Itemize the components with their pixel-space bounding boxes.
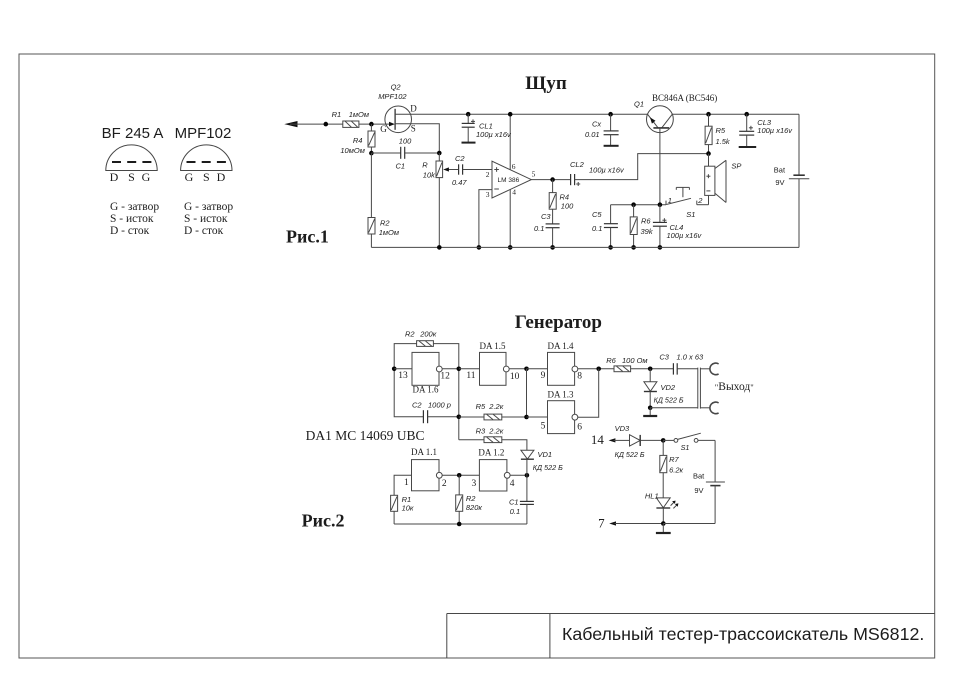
capacitor C1 100 xyxy=(371,136,439,170)
svg-text:КД 522 Б: КД 522 Б xyxy=(654,395,684,404)
svg-text:VD2: VD2 xyxy=(661,383,676,392)
svg-text:C2: C2 xyxy=(412,400,422,409)
svg-text:100: 100 xyxy=(561,202,574,211)
svg-text:DA 1.2: DA 1.2 xyxy=(478,447,504,457)
svg-text:G: G xyxy=(380,124,387,134)
svg-text:Щуп: Щуп xyxy=(525,73,567,94)
junction DA1.3 input node xyxy=(524,415,529,420)
inverter DA 1.6 xyxy=(398,352,450,394)
svg-text:6: 6 xyxy=(577,423,582,433)
svg-text:1000 р: 1000 р xyxy=(428,400,451,409)
wire pin4 to ground rail xyxy=(509,189,511,247)
wire output DA1.6 xyxy=(442,368,459,370)
svg-text:8: 8 xyxy=(577,372,582,382)
capacitor C1 0.1 xyxy=(509,475,534,524)
svg-text:D: D xyxy=(410,103,417,113)
svg-text:G: G xyxy=(185,170,194,184)
junction Q1 base node xyxy=(658,202,663,207)
resistor R5 1.5k xyxy=(705,112,731,154)
svg-text:0.1: 0.1 xyxy=(534,224,544,233)
svg-text:12: 12 xyxy=(440,372,450,382)
junction VD2 node xyxy=(648,367,653,372)
svg-text:14: 14 xyxy=(591,432,605,447)
svg-text:0.47: 0.47 xyxy=(452,178,467,187)
svg-text:10k: 10k xyxy=(423,170,436,179)
svg-text:Q2: Q2 xyxy=(391,83,402,92)
capacitor CL3 100µ x16v xyxy=(739,112,794,147)
wire CL2 to R5 node xyxy=(575,154,709,180)
wire R2 feedback right xyxy=(433,344,458,440)
resistor R1 10к xyxy=(391,495,414,524)
svg-text:S: S xyxy=(128,170,135,184)
wire Q2 source to R pot xyxy=(395,124,439,153)
junction VD2 bottom node xyxy=(648,406,653,411)
svg-text:Генератор: Генератор xyxy=(515,312,602,333)
wire to DA1.4 input xyxy=(527,368,548,370)
svg-text:39k: 39k xyxy=(641,227,654,236)
svg-text:D: D xyxy=(217,170,226,184)
svg-text:2.2к: 2.2к xyxy=(488,426,503,435)
svg-text:100µ x16v: 100µ x16v xyxy=(757,126,793,135)
resistor R2 200к xyxy=(405,330,437,347)
junction gate node xyxy=(369,122,374,127)
svg-text:S1: S1 xyxy=(686,210,695,219)
svg-text:4: 4 xyxy=(510,479,515,489)
inverter DA 1.1 xyxy=(404,447,447,491)
wire R1 to Q2 gate xyxy=(359,123,385,125)
junction output node xyxy=(550,177,555,182)
junction pin3 rail xyxy=(477,245,482,250)
svg-text:Q1: Q1 xyxy=(634,99,644,108)
capacitor Cx 0.01 xyxy=(585,112,619,146)
svg-text:S - исток: S - исток xyxy=(184,213,228,225)
wire top supply rail xyxy=(395,113,799,115)
ground below HL1 xyxy=(656,524,671,534)
legend MPF102 pin names xyxy=(184,201,233,237)
svg-text:CL2: CL2 xyxy=(570,160,585,169)
junction C3 rail xyxy=(550,245,555,250)
legend BF245A pin names xyxy=(110,201,159,237)
inverter DA 1.4 xyxy=(541,341,583,385)
svg-text:C5: C5 xyxy=(592,210,602,219)
svg-text:5: 5 xyxy=(541,421,546,431)
junction R6 top xyxy=(631,202,636,207)
arrow to pin 14 xyxy=(609,438,630,442)
capacitor C2 1000р xyxy=(412,400,459,423)
svg-text:3: 3 xyxy=(472,479,477,489)
svg-text:DA 1.4: DA 1.4 xyxy=(548,341,575,351)
svg-text:1мОм: 1мОм xyxy=(349,110,369,119)
svg-text:R6: R6 xyxy=(641,216,651,225)
svg-text:2: 2 xyxy=(697,196,703,205)
junction R6 rail xyxy=(631,245,636,250)
svg-text:100 Ом: 100 Ом xyxy=(622,356,648,365)
wire DA1.2 output xyxy=(510,474,527,476)
svg-text:R: R xyxy=(422,160,428,169)
resistor R4 100 xyxy=(549,180,574,224)
resistor R1 1мОм xyxy=(332,110,369,127)
svg-text:LM 386: LM 386 xyxy=(498,177,520,184)
wire pin3 to ground rail xyxy=(479,190,492,248)
svg-text:C1: C1 xyxy=(509,497,519,506)
svg-text:"Выход": "Выход" xyxy=(715,381,754,393)
wire pin12 to DA1.5 xyxy=(459,368,480,370)
svg-text:VD1: VD1 xyxy=(538,450,553,459)
svg-text:1мОм: 1мОм xyxy=(379,228,399,237)
svg-text:R5: R5 xyxy=(476,402,486,411)
junction VD3/R7/S1 node xyxy=(661,438,666,443)
resistor R6 39k xyxy=(630,205,654,248)
junction C1/pot node xyxy=(437,151,442,156)
wire to DA1.3 input xyxy=(527,416,548,418)
transistor MPF102 package outline xyxy=(181,145,232,171)
svg-text:R1: R1 xyxy=(332,110,342,119)
svg-text:R7: R7 xyxy=(669,455,679,464)
wire pin5 output xyxy=(531,179,570,181)
junction R4/C1/R2 node xyxy=(369,151,374,156)
inverter DA 1.2 xyxy=(472,447,515,491)
svg-text:820к: 820к xyxy=(466,503,483,512)
junction R5/CL2/SP node xyxy=(706,151,711,156)
svg-text:DA1 MC 14069 UBC: DA1 MC 14069 UBC xyxy=(306,428,425,443)
LED HL1 xyxy=(645,492,679,524)
svg-text:R2: R2 xyxy=(380,219,390,228)
svg-text:D - сток: D - сток xyxy=(184,225,224,237)
svg-text:R6: R6 xyxy=(606,356,616,365)
junction pin6 rail xyxy=(508,112,513,117)
svg-text:SP: SP xyxy=(731,162,741,171)
capacitor C2 0.47 xyxy=(452,154,492,187)
svg-text:D: D xyxy=(110,170,119,184)
svg-text:10к: 10к xyxy=(402,503,414,512)
wire ground rail xyxy=(371,246,799,248)
junction pot rail xyxy=(437,245,442,250)
junction C5 rail xyxy=(608,245,613,250)
svg-text:R2: R2 xyxy=(405,330,415,339)
switch S1 xyxy=(666,187,703,219)
svg-text:9V: 9V xyxy=(775,178,784,187)
svg-text:S1: S1 xyxy=(681,443,690,452)
svg-text:1.5k: 1.5k xyxy=(716,137,731,146)
capacitor C3 0.1 xyxy=(534,212,560,247)
svg-text:100µ x16v: 100µ x16v xyxy=(667,231,703,240)
svg-text:3: 3 xyxy=(486,190,490,199)
resistor R2 820к xyxy=(456,475,483,524)
svg-text:100µ x16v: 100µ x16v xyxy=(476,130,512,139)
capacitor CL2 100µ x16v xyxy=(570,160,625,186)
svg-text:0.1: 0.1 xyxy=(510,507,520,516)
junction pin13 node xyxy=(392,367,397,372)
svg-text:2: 2 xyxy=(442,479,447,489)
svg-text:1.0 x 63: 1.0 x 63 xyxy=(677,353,705,362)
svg-text:VD3: VD3 xyxy=(615,424,630,433)
wire DA1.1 output xyxy=(442,474,479,476)
resistor R7 6.2к xyxy=(660,440,684,497)
svg-text:R5: R5 xyxy=(716,126,726,135)
probe tip arrow xyxy=(284,121,343,127)
svg-text:DA 1.3: DA 1.3 xyxy=(548,389,575,399)
svg-text:1: 1 xyxy=(668,196,672,205)
svg-text:9: 9 xyxy=(541,371,546,381)
junction DA1.5 output node xyxy=(524,367,529,372)
transistor BF 245 A package outline xyxy=(106,145,157,171)
svg-text:G - затвор: G - затвор xyxy=(110,201,159,213)
battery Bat 9V xyxy=(774,114,810,247)
svg-text:0.01: 0.01 xyxy=(585,130,600,139)
switch S1 xyxy=(663,433,715,452)
ground below VD2 xyxy=(643,408,657,416)
connector Выход xyxy=(698,363,754,414)
wire Q1 base down xyxy=(659,128,661,205)
resistor R4 10мОм xyxy=(340,124,375,155)
svg-text:200к: 200к xyxy=(419,330,437,339)
wire fig2 ground rail xyxy=(394,523,527,525)
svg-text:4: 4 xyxy=(512,187,516,196)
potentiometer R 10k xyxy=(422,153,458,247)
junction R2 top node xyxy=(457,473,462,478)
svg-text:DA 1.1: DA 1.1 xyxy=(411,447,437,457)
svg-text:R3: R3 xyxy=(476,426,486,435)
resistor R3 2.2к xyxy=(459,426,527,450)
svg-text:10мОм: 10мОм xyxy=(340,146,364,155)
diode VD3 КД522Б xyxy=(615,424,664,459)
svg-text:7: 7 xyxy=(598,515,605,530)
svg-text:S: S xyxy=(203,170,210,184)
junction pin4 rail xyxy=(508,245,513,250)
capacitor CL1 100µ x16v xyxy=(462,112,513,143)
wire input DA1.6 xyxy=(394,368,412,370)
wire output lower to connector xyxy=(650,407,698,409)
svg-text:R4: R4 xyxy=(353,136,363,145)
junction R2 bottom rail xyxy=(457,522,462,527)
svg-text:G: G xyxy=(142,170,151,184)
junction pin8 node xyxy=(596,367,601,372)
transistor Q1 BC846A xyxy=(634,93,717,133)
svg-text:6.2к: 6.2к xyxy=(669,465,683,474)
svg-text:6: 6 xyxy=(512,162,516,171)
svg-text:MPF102: MPF102 xyxy=(175,125,232,142)
svg-text:Рис.2: Рис.2 xyxy=(302,511,345,531)
svg-text:Cx: Cx xyxy=(592,120,601,129)
svg-text:S: S xyxy=(411,124,416,134)
wire bottom to battery xyxy=(663,523,715,525)
svg-text:2: 2 xyxy=(486,170,490,179)
svg-text:R4: R4 xyxy=(560,192,570,201)
svg-text:9V: 9V xyxy=(694,486,703,495)
wire output DA1.5 xyxy=(509,368,526,370)
svg-text:10: 10 xyxy=(510,372,520,382)
svg-text:MPF102: MPF102 xyxy=(378,92,407,101)
resistor R5 2.2к xyxy=(459,402,527,420)
wire DA1.1 input xyxy=(394,475,411,495)
junction pin4/VD1/C1 node xyxy=(525,473,530,478)
diode VD2 КД522Б xyxy=(644,369,684,408)
svg-text:КД 522 Б: КД 522 Б xyxy=(533,463,563,472)
op-amp U1 LM386 xyxy=(486,161,536,199)
wire R2 feedback left xyxy=(394,344,423,417)
junction C2/R5/R3 node xyxy=(457,415,462,420)
svg-text:G - затвор: G - затвор xyxy=(184,201,233,213)
svg-text:Bat: Bat xyxy=(693,472,705,481)
wire output DA1.3 up to pin8 node xyxy=(578,369,599,417)
svg-text:1: 1 xyxy=(404,478,409,488)
svg-text:BF 245 A: BF 245 A xyxy=(102,125,164,142)
svg-text:S - исток: S - исток xyxy=(110,213,154,225)
svg-text:D - сток: D - сток xyxy=(110,225,150,237)
diode VD1 КД522Б xyxy=(521,450,563,475)
wire output DA1.4 xyxy=(578,368,614,370)
junction HL1 bottom node xyxy=(661,521,666,526)
svg-text:BC846A (BC546): BC846A (BC546) xyxy=(652,93,717,103)
speaker SP xyxy=(697,154,742,205)
capacitor C3 1.0 x 63 xyxy=(659,353,704,375)
svg-text:11: 11 xyxy=(466,371,475,381)
svg-text:C2: C2 xyxy=(455,154,465,163)
junction CL4 rail xyxy=(658,245,663,250)
svg-text:Кабельный тестер-трассоискател: Кабельный тестер-трассоискатель MS6812. xyxy=(562,624,924,644)
svg-text:C1: C1 xyxy=(396,162,406,171)
resistor R6 100 Ом xyxy=(606,356,673,372)
resistor R2 1мОм xyxy=(368,153,399,247)
svg-text:DA 1.6: DA 1.6 xyxy=(413,384,440,394)
arrow to pin 7 xyxy=(609,521,663,525)
svg-text:5: 5 xyxy=(532,169,536,178)
svg-text:100: 100 xyxy=(399,136,412,145)
inverter DA 1.5 xyxy=(466,341,519,385)
svg-text:C3: C3 xyxy=(541,212,551,221)
junction pin12 node xyxy=(457,367,462,372)
svg-text:DA 1.5: DA 1.5 xyxy=(480,341,507,351)
svg-text:КД 522 Б: КД 522 Б xyxy=(615,450,645,459)
transistor Q2 MPF102 xyxy=(378,83,417,135)
wire DA1.5 out down to DA1.3 input xyxy=(526,369,528,417)
capacitor CL4 100µ x16v xyxy=(653,205,703,248)
svg-text:Рис.1: Рис.1 xyxy=(286,227,329,247)
svg-text:R2: R2 xyxy=(466,494,476,503)
node probe terminal xyxy=(324,122,329,127)
wire emitter node xyxy=(611,204,666,206)
svg-text:С3: С3 xyxy=(659,353,669,362)
wire pin6 to supply rail xyxy=(509,114,511,170)
svg-text:100µ x16v: 100µ x16v xyxy=(589,166,625,175)
svg-text:Bat: Bat xyxy=(774,165,786,174)
svg-text:0.1: 0.1 xyxy=(592,224,602,233)
battery Bat 9V xyxy=(693,440,725,523)
svg-text:2.2к: 2.2к xyxy=(488,402,503,411)
svg-text:13: 13 xyxy=(398,371,408,381)
capacitor C5 0.1 xyxy=(592,205,618,248)
inverter DA 1.3 xyxy=(541,389,583,433)
svg-text:HL1: HL1 xyxy=(645,492,659,501)
